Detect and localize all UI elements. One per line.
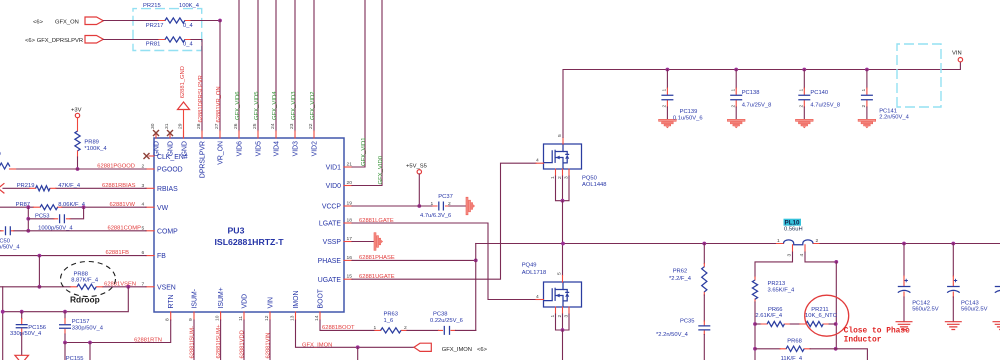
svg-text:GFX_VID3: GFX_VID3 bbox=[291, 91, 297, 120]
wire 62881ISUM- bbox=[193, 320, 195, 360]
wire bbox=[790, 323, 800, 325]
pin 23 VID3 bbox=[294, 131, 296, 138]
capacitor PC38 bbox=[439, 329, 456, 331]
capacitor PC53 bbox=[28, 218, 54, 220]
svg-text:25: 25 bbox=[252, 123, 258, 129]
pin 12 VIN bbox=[269, 312, 271, 320]
pin 22 VID2 bbox=[313, 131, 315, 138]
resistor PR213 bbox=[754, 277, 756, 302]
svg-text:CLK_EN#: CLK_EN# bbox=[157, 154, 188, 161]
svg-text:GFX_DPRSLPVR: GFX_DPRSLPVR bbox=[37, 38, 83, 44]
wire bbox=[191, 20, 220, 22]
capacitor PC141 bbox=[865, 68, 869, 72]
wire 62881RTN bbox=[65, 320, 171, 343]
svg-text:GFX_VID2: GFX_VID2 bbox=[310, 92, 316, 120]
wire to PC155 (off page) bbox=[65, 343, 90, 360]
wire GFX_VID6 bbox=[238, 0, 240, 131]
pin 30 GND (nc) bbox=[155, 135, 157, 139]
svg-text:VR_ON: VR_ON bbox=[218, 141, 225, 165]
capacitor PC138 bbox=[734, 68, 738, 72]
wire phase rail left bbox=[476, 243, 777, 245]
resistor PR87 bbox=[34, 206, 62, 208]
transistor PQ50 AOL1448 (high side) bbox=[544, 144, 582, 169]
capacitor PC142 (polarized) bbox=[903, 244, 905, 277]
svg-text:VSEN: VSEN bbox=[157, 284, 176, 291]
svg-text:5: 5 bbox=[557, 272, 563, 275]
wire to ground bbox=[21, 334, 23, 355]
svg-text:24: 24 bbox=[270, 123, 276, 129]
pin 24 VID4 bbox=[275, 131, 277, 138]
svg-text:ISUM-: ISUM- bbox=[192, 289, 199, 309]
resistor PR211 (NTC) bbox=[800, 323, 829, 325]
pin 29 GND bbox=[183, 131, 185, 138]
svg-text:19: 19 bbox=[347, 201, 353, 207]
pin 11 VDD bbox=[243, 312, 245, 320]
svg-text:23: 23 bbox=[289, 123, 295, 129]
pin 10 ISUM+ bbox=[220, 312, 222, 320]
connector arrow (clipped) RBIAS row bbox=[0, 183, 4, 193]
wire 62881VR_ON bbox=[219, 21, 221, 132]
resistor PR63 bbox=[375, 329, 407, 331]
gate pin 4 stub bbox=[536, 162, 544, 164]
svg-text:PGOOD: PGOOD bbox=[157, 167, 183, 174]
svg-text:3: 3 bbox=[563, 315, 569, 318]
svg-text:PHASE: PHASE bbox=[318, 258, 342, 265]
svg-text:PC139: PC139 bbox=[680, 109, 698, 115]
wire 62881DPRSLPVR bbox=[191, 40, 202, 132]
resistor PR66 bbox=[755, 323, 761, 325]
wire 62881VIN bbox=[269, 320, 271, 360]
svg-text:AOL1718: AOL1718 bbox=[522, 270, 547, 276]
wire to phase rail bbox=[562, 201, 564, 244]
junction bbox=[76, 167, 80, 171]
svg-text:62881VDD: 62881VDD bbox=[240, 330, 246, 358]
svg-text:VID1: VID1 bbox=[326, 165, 341, 172]
svg-text:4.7u/25V_8: 4.7u/25V_8 bbox=[742, 102, 772, 108]
wire 62881VDD bbox=[243, 320, 245, 360]
svg-text:1: 1 bbox=[730, 89, 736, 92]
svg-text:GFX_VID5: GFX_VID5 bbox=[254, 91, 260, 120]
svg-text:62881PHASE: 62881PHASE bbox=[359, 255, 395, 261]
wire 62881FB bbox=[0, 255, 146, 257]
terminal VIN bbox=[958, 58, 962, 62]
pin 21 VID1 bbox=[344, 166, 352, 168]
pin 4 VW bbox=[146, 206, 154, 208]
dashed box right bbox=[897, 44, 941, 107]
wire bbox=[703, 295, 705, 321]
svg-text:AOL1448: AOL1448 bbox=[582, 182, 607, 188]
svg-text:330p/50V_4: 330p/50V_4 bbox=[0, 245, 20, 251]
svg-text:VIN: VIN bbox=[268, 297, 275, 309]
svg-text:2: 2 bbox=[557, 176, 563, 179]
wire GFX_VID2 bbox=[313, 0, 315, 131]
svg-text:RTN: RTN bbox=[168, 294, 175, 308]
svg-text:8.06K/F_4: 8.06K/F_4 bbox=[58, 202, 86, 208]
transistor PQ49 AOL1718 (low side) bbox=[544, 282, 582, 307]
resistor PR68 bbox=[755, 348, 780, 350]
svg-text:0.22u/25V_6: 0.22u/25V_6 bbox=[430, 318, 463, 324]
svg-text:PQ49: PQ49 bbox=[522, 263, 537, 269]
wire GFX_VID3 bbox=[294, 0, 296, 131]
junction bbox=[561, 199, 565, 203]
svg-text:RBIAS: RBIAS bbox=[157, 186, 178, 193]
wire GFX_VID0 bbox=[352, 0, 382, 186]
svg-text:0.56uH: 0.56uH bbox=[784, 227, 803, 233]
svg-text:1: 1 bbox=[861, 89, 867, 92]
svg-text:4: 4 bbox=[536, 158, 539, 164]
capacitor PC140 bbox=[802, 68, 806, 72]
wire GFX_VID5 bbox=[257, 0, 259, 131]
svg-text:BOOT: BOOT bbox=[318, 288, 325, 308]
svg-text:2.61K/F_4: 2.61K/F_4 bbox=[755, 313, 783, 319]
svg-text:11K/F_4: 11K/F_4 bbox=[781, 356, 803, 360]
pin 9 ISUM- bbox=[193, 312, 195, 320]
capacitor PC37 bbox=[433, 205, 449, 207]
svg-text:VID4: VID4 bbox=[274, 141, 281, 156]
annotation circle around PR211 bbox=[805, 295, 849, 336]
svg-text:30: 30 bbox=[150, 123, 156, 129]
svg-text:+3V: +3V bbox=[71, 107, 82, 113]
svg-text:62881VW: 62881VW bbox=[110, 202, 136, 208]
svg-text:VID6: VID6 bbox=[237, 141, 244, 156]
svg-text:47K/F_4: 47K/F_4 bbox=[58, 183, 81, 189]
ground bbox=[659, 119, 677, 128]
junction bbox=[561, 328, 565, 332]
svg-text:PL10: PL10 bbox=[785, 220, 801, 227]
dashed selection box bbox=[133, 9, 202, 51]
svg-text:1: 1 bbox=[777, 238, 780, 244]
svg-text:62881PGOOD: 62881PGOOD bbox=[97, 164, 135, 170]
svg-text:2: 2 bbox=[557, 315, 563, 318]
svg-text:GFX_VID0: GFX_VID0 bbox=[378, 155, 384, 184]
svg-text:UGATE: UGATE bbox=[318, 277, 342, 284]
svg-text:Inductor: Inductor bbox=[844, 336, 882, 345]
svg-text:PU3: PU3 bbox=[228, 225, 245, 235]
wire 62881VSEN bbox=[0, 286, 146, 288]
svg-text:62881VR_ON: 62881VR_ON bbox=[216, 86, 222, 122]
phase vertical bbox=[475, 244, 477, 331]
pin 8 RTN bbox=[170, 312, 172, 320]
svg-text:COMP: COMP bbox=[157, 228, 178, 235]
svg-text:3: 3 bbox=[787, 254, 793, 257]
node VSEN to cap rail bbox=[126, 285, 130, 289]
svg-text:10K_6_NTC: 10K_6_NTC bbox=[805, 313, 837, 319]
junction bbox=[38, 285, 42, 289]
svg-text:18: 18 bbox=[347, 218, 353, 224]
pin 25 VID5 bbox=[257, 131, 259, 138]
pin 13 IMON bbox=[295, 312, 297, 320]
svg-text:PC50: PC50 bbox=[0, 238, 10, 244]
pin 15 UGATE bbox=[344, 278, 352, 280]
svg-text:VCCP: VCCP bbox=[322, 204, 342, 211]
svg-text:1: 1 bbox=[374, 325, 377, 331]
wire phase rail right bbox=[820, 243, 1000, 245]
svg-text:62881FB: 62881FB bbox=[105, 250, 129, 256]
svg-text:1: 1 bbox=[799, 89, 805, 92]
svg-text:2: 2 bbox=[816, 238, 819, 244]
svg-text:4: 4 bbox=[799, 254, 805, 257]
wire left leg bbox=[754, 302, 756, 360]
junction bbox=[753, 347, 757, 351]
svg-text:1: 1 bbox=[431, 201, 434, 207]
svg-text:4.7u/6.3V_6: 4.7u/6.3V_6 bbox=[420, 213, 451, 219]
junction bbox=[702, 242, 706, 246]
svg-text:62881ISUM-: 62881ISUM- bbox=[190, 326, 196, 359]
capacitor PC156 bbox=[21, 312, 23, 319]
node 62881PGOOD wire bbox=[16, 168, 146, 170]
svg-text:62881VIN: 62881VIN bbox=[266, 333, 272, 359]
resistor PR62 bbox=[703, 264, 705, 296]
svg-text:PC35: PC35 bbox=[680, 318, 695, 324]
junction bbox=[1, 310, 5, 314]
wire 62881VW bbox=[0, 206, 146, 208]
svg-text:PR63: PR63 bbox=[384, 311, 399, 317]
svg-text:2: 2 bbox=[662, 105, 668, 108]
svg-text:PR219: PR219 bbox=[17, 183, 35, 189]
svg-text:22: 22 bbox=[308, 123, 314, 129]
net 62881PHASE wire bbox=[352, 259, 476, 261]
svg-text:PC38: PC38 bbox=[433, 311, 448, 317]
junction bbox=[834, 322, 838, 326]
pin 17 VSSP bbox=[344, 241, 352, 243]
svg-text:2: 2 bbox=[799, 105, 805, 108]
svg-text:GFX_VID1: GFX_VID1 bbox=[361, 138, 367, 166]
pin 31 GND (nc) bbox=[169, 135, 171, 139]
svg-text:PR89: PR89 bbox=[84, 140, 99, 146]
ground (open triangle) bbox=[15, 355, 29, 360]
pin 27 VR_ON bbox=[219, 131, 221, 138]
ground (sideways) at VSSP bbox=[374, 233, 383, 251]
svg-text:62881RBIAS: 62881RBIAS bbox=[102, 183, 136, 189]
svg-text:VW: VW bbox=[157, 205, 169, 212]
node B vertical PR87/PC53 right bbox=[82, 205, 86, 209]
wire GFX_VID1 bbox=[352, 0, 365, 167]
connector GFX_IMON (left pointing) bbox=[414, 343, 431, 351]
wire pin4 to right leg bbox=[805, 252, 836, 262]
wire VCCP bbox=[352, 205, 433, 207]
gate pin 4 stub bbox=[536, 299, 544, 301]
resistor PR219 bbox=[30, 187, 56, 189]
junction bbox=[951, 242, 955, 246]
pin 1 CLK_EN# (nc) bbox=[149, 155, 154, 157]
svg-text:62881BOOT: 62881BOOT bbox=[322, 325, 355, 331]
svg-text:2: 2 bbox=[730, 105, 736, 108]
wire VIN rail bbox=[563, 62, 960, 138]
svg-text:11: 11 bbox=[238, 316, 244, 321]
ground (sideways) at PC37 bbox=[466, 197, 475, 215]
capacitor PC157 bbox=[64, 312, 66, 319]
svg-text:*2.2n/50V_4: *2.2n/50V_4 bbox=[656, 332, 689, 338]
svg-text:PR217: PR217 bbox=[146, 23, 164, 29]
junction bbox=[26, 229, 30, 233]
pin 28 DPRSLPVR bbox=[201, 131, 203, 138]
svg-text:10: 10 bbox=[214, 315, 220, 321]
svg-text:31: 31 bbox=[164, 123, 170, 129]
pin 2 PGOOD bbox=[146, 168, 154, 170]
svg-text:2: 2 bbox=[861, 105, 867, 108]
svg-text:ISL62881HRTZ-T: ISL62881HRTZ-T bbox=[215, 237, 285, 247]
wire right leg bbox=[835, 262, 837, 349]
net 62881UGATE wire to PQ50 gate bbox=[352, 163, 536, 279]
svg-text:VID3: VID3 bbox=[293, 141, 300, 156]
svg-text:330p/50V_4: 330p/50V_4 bbox=[72, 325, 104, 331]
svg-text:PQ50: PQ50 bbox=[582, 176, 597, 182]
svg-text:560u/2.5V: 560u/2.5V bbox=[912, 306, 939, 312]
pin 7 VSEN bbox=[146, 286, 154, 288]
svg-text:PC138: PC138 bbox=[742, 90, 760, 96]
svg-text:<6>: <6> bbox=[25, 38, 36, 44]
capacitor PC35 bbox=[703, 321, 705, 335]
wire to phase vertical bbox=[456, 329, 476, 331]
svg-text:3.65K/F_4: 3.65K/F_4 bbox=[768, 288, 796, 294]
svg-text:ISUM+: ISUM+ bbox=[218, 287, 225, 308]
svg-text:PR213: PR213 bbox=[768, 281, 786, 287]
resistor PR88 (Rdroop) bbox=[71, 286, 103, 288]
pin 18 LGATE bbox=[344, 222, 352, 224]
junction bbox=[88, 341, 92, 345]
svg-text:12: 12 bbox=[264, 315, 270, 321]
junction bbox=[561, 242, 565, 246]
svg-text:VDD: VDD bbox=[242, 294, 249, 309]
svg-text:1: 1 bbox=[662, 89, 668, 92]
svg-text:VID2: VID2 bbox=[312, 141, 319, 156]
svg-text:Close to Phase: Close to Phase bbox=[844, 327, 911, 336]
svg-text:62881COMP: 62881COMP bbox=[107, 225, 141, 231]
svg-text:FB: FB bbox=[157, 253, 166, 260]
svg-text:GFX_VID6: GFX_VID6 bbox=[235, 91, 241, 120]
pin 26 VID6 bbox=[238, 131, 240, 138]
junction bbox=[63, 310, 67, 314]
pin 14 BOOT bbox=[319, 312, 321, 320]
wire off page bbox=[703, 335, 705, 360]
pin 20 VID0 bbox=[344, 185, 352, 187]
drain pin 5 wire from phase bbox=[562, 244, 564, 276]
svg-text:VIN: VIN bbox=[952, 51, 962, 57]
svg-text:9: 9 bbox=[188, 318, 194, 321]
wire source merge bbox=[556, 314, 570, 330]
svg-text:5: 5 bbox=[557, 134, 563, 137]
wire VSSP to ground bbox=[352, 241, 374, 243]
svg-text:62881ISUM+: 62881ISUM+ bbox=[216, 324, 222, 359]
svg-text:PR88: PR88 bbox=[74, 271, 89, 277]
svg-text:PC37: PC37 bbox=[438, 194, 453, 200]
net 62881LGATE wire to PQ49 gate bbox=[352, 223, 536, 300]
svg-text:LGATE: LGATE bbox=[319, 221, 341, 228]
wire source merge bbox=[556, 176, 570, 201]
wire bbox=[103, 39, 159, 41]
wire 62881COMP bbox=[14, 230, 147, 232]
junction bbox=[834, 260, 838, 264]
svg-text:62881RTN: 62881RTN bbox=[134, 338, 162, 344]
svg-text:62881LGATE: 62881LGATE bbox=[359, 218, 394, 224]
svg-text:PC157: PC157 bbox=[72, 319, 90, 325]
svg-text:GFX_ON: GFX_ON bbox=[55, 19, 79, 25]
junction bbox=[753, 322, 757, 326]
drain pin 5 stub bbox=[562, 138, 564, 145]
wire right extension down bbox=[836, 349, 868, 360]
ground 62881_GND (up triangle) on pin 29 bbox=[178, 102, 190, 110]
svg-text:4: 4 bbox=[536, 294, 539, 300]
source pins 1,2,3 stubs bbox=[556, 169, 570, 176]
node junction bbox=[218, 19, 222, 23]
svg-text:<6>: <6> bbox=[33, 19, 44, 25]
inductor PL10 bbox=[777, 243, 821, 245]
svg-text:0: 0 bbox=[0, 152, 1, 158]
pin 5 COMP bbox=[146, 230, 154, 232]
svg-text:16: 16 bbox=[347, 255, 353, 261]
resistor PR89 bbox=[75, 131, 80, 151]
svg-text:29: 29 bbox=[178, 123, 184, 129]
junction bbox=[417, 204, 421, 208]
svg-text:GFX_VID4: GFX_VID4 bbox=[272, 91, 278, 120]
svg-text:62881VSEN: 62881VSEN bbox=[104, 281, 136, 287]
svg-text:PC141: PC141 bbox=[879, 108, 897, 114]
svg-text:*100K_4: *100K_4 bbox=[84, 146, 107, 152]
svg-text:20: 20 bbox=[347, 180, 353, 186]
wire FB to VSEN vertical bbox=[38, 254, 42, 258]
svg-text:PR81: PR81 bbox=[146, 42, 161, 48]
svg-text:330p/50V_4: 330p/50V_4 bbox=[10, 331, 42, 337]
junction bbox=[26, 217, 30, 221]
op-amp U1 body bbox=[154, 138, 344, 312]
resistor PR81 bbox=[159, 39, 191, 41]
svg-text:17: 17 bbox=[347, 236, 353, 242]
svg-text:VID0: VID0 bbox=[326, 183, 341, 190]
resistor (clipped at left edge) on PGOOD line bbox=[0, 163, 10, 169]
svg-text:560u/2.5V: 560u/2.5V bbox=[961, 306, 988, 312]
junction bbox=[834, 347, 838, 351]
capacitor PC50 (clipped at edge) bbox=[0, 230, 1, 232]
svg-text:26: 26 bbox=[233, 123, 239, 129]
wire bbox=[103, 20, 159, 22]
svg-text:1_6: 1_6 bbox=[384, 318, 394, 324]
wire GFX_IMON bbox=[296, 320, 415, 347]
svg-text:<6>: <6> bbox=[477, 347, 488, 353]
Rdroop dashed ellipse bbox=[61, 262, 116, 297]
source pins 1,2,3 stubs bbox=[556, 307, 570, 314]
svg-text:1: 1 bbox=[550, 176, 556, 179]
junction bbox=[63, 341, 67, 345]
svg-text:28: 28 bbox=[196, 123, 202, 129]
wire 62881RBIAS bbox=[3, 187, 146, 189]
wire to ground bbox=[449, 205, 466, 207]
pin 3 RBIAS bbox=[146, 187, 154, 189]
wire bbox=[407, 329, 439, 331]
inductor sense pins 3,4 bbox=[793, 245, 806, 252]
svg-text:15: 15 bbox=[347, 274, 353, 280]
svg-text:PC140: PC140 bbox=[810, 90, 828, 96]
junction bbox=[20, 310, 24, 314]
svg-text:2.2n/50V_4: 2.2n/50V_4 bbox=[879, 115, 909, 121]
svg-text:1: 1 bbox=[550, 315, 556, 318]
svg-text:PR68: PR68 bbox=[787, 338, 802, 344]
svg-text:14: 14 bbox=[314, 315, 320, 321]
svg-text:DPRSLPVR: DPRSLPVR bbox=[200, 141, 207, 178]
svg-text:GFX_IMON: GFX_IMON bbox=[302, 342, 332, 348]
svg-text:27: 27 bbox=[214, 123, 220, 129]
net 62881BOOT wire bbox=[320, 320, 375, 330]
junction bbox=[474, 259, 478, 263]
svg-text:0.1u/50V_6: 0.1u/50V_6 bbox=[673, 115, 703, 121]
svg-text:62881_GND: 62881_GND bbox=[180, 66, 186, 98]
svg-text:+5V_S5: +5V_S5 bbox=[406, 164, 427, 170]
svg-text:8: 8 bbox=[165, 318, 171, 321]
junction bbox=[902, 242, 906, 246]
svg-text:PC156: PC156 bbox=[28, 325, 46, 331]
pin 6 FB bbox=[146, 255, 154, 257]
pin 16 PHASE bbox=[344, 259, 352, 261]
wire GFX_VID4 bbox=[275, 0, 277, 131]
